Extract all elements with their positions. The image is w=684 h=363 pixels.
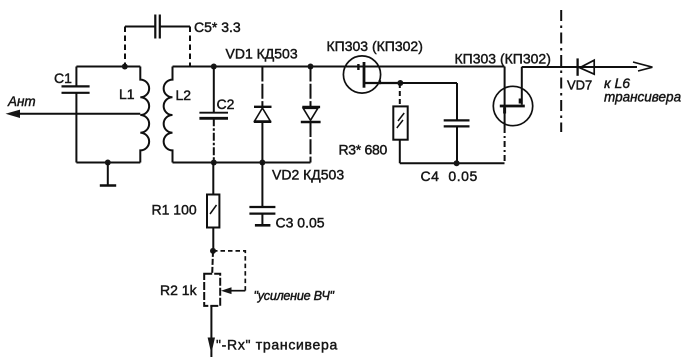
junction VD2 top — [308, 64, 314, 70]
junction ground tap — [105, 160, 111, 166]
resistor R1 — [152, 163, 220, 251]
junction C4 bottom — [454, 160, 460, 166]
ground C3 — [255, 224, 271, 227]
capacitor C2 — [199, 67, 234, 163]
wire antenna line — [17, 113, 140, 115]
wire output — [522, 66, 637, 68]
svg-text:C3 0.05: C3 0.05 — [276, 215, 325, 231]
ground — [100, 163, 116, 186]
svg-text:R1 100: R1 100 — [152, 202, 197, 218]
svg-text:VD2 КД503: VD2 КД503 — [272, 167, 344, 183]
wire source to C4 — [400, 82, 457, 84]
svg-text:VD7: VD7 — [567, 78, 592, 93]
wire dashed wiper link — [213, 251, 245, 291]
arrow to L6 — [633, 62, 653, 71]
junction C5 left tap — [122, 64, 128, 70]
svg-text:L1: L1 — [119, 86, 135, 102]
junction Q1 source — [397, 80, 403, 86]
inductor L1 — [119, 67, 149, 163]
wire primary bottom — [76, 162, 140, 164]
capacitor C3 — [249, 163, 324, 231]
wire secondary top rail — [173, 66, 505, 68]
inductor L2 — [164, 67, 192, 163]
svg-text:C5* 3.3: C5* 3.3 — [194, 19, 241, 35]
boundary dash line — [560, 10, 562, 132]
capacitor C5 — [125, 15, 241, 39]
svg-text:Ант: Ант — [7, 94, 36, 109]
diode VD1 — [226, 46, 298, 163]
svg-text:C4 0.05: C4 0.05 — [421, 168, 478, 184]
junction C2 bottom / R1 top — [211, 160, 217, 166]
svg-text:"-Rx" трансивера: "-Rx" трансивера — [216, 337, 338, 353]
svg-text:КП303 (КП302): КП303 (КП302) — [327, 38, 423, 54]
transistor Q2 КП303 — [455, 51, 551, 164]
junction C2 top — [211, 64, 217, 70]
capacitor C4 — [421, 83, 478, 184]
junction VD1 bottom / C3 top — [259, 160, 265, 166]
resistor R2 potentiometer — [160, 251, 232, 306]
wire R2 bottom lead — [210, 306, 212, 357]
svg-text:VD1 КД503: VD1 КД503 — [226, 46, 298, 62]
junction R1 bottom / R2 top — [210, 248, 216, 254]
svg-text:трансивера: трансивера — [604, 90, 682, 105]
wire C5 right riser — [189, 27, 191, 67]
svg-text:КП303 (КП302): КП303 (КП302) — [455, 51, 551, 67]
svg-text:R2 1k: R2 1k — [160, 282, 198, 298]
svg-text:R3* 680: R3* 680 — [339, 142, 388, 158]
wire secondary bottom rail — [173, 162, 311, 164]
resistor R3 — [339, 83, 408, 163]
arrow to Rx — [208, 338, 215, 354]
transistor Q1 КП303 — [327, 38, 423, 93]
capacitor C1 — [54, 67, 90, 163]
svg-text:C2: C2 — [217, 96, 235, 112]
antenna arrow — [6, 110, 21, 118]
wire primary top — [76, 66, 140, 68]
wire C5 left riser — [124, 27, 126, 67]
svg-text:L2: L2 — [176, 87, 192, 103]
svg-text:C1: C1 — [54, 70, 72, 86]
wire bottom rail 2 — [400, 162, 505, 164]
svg-text:"усиление ВЧ": "усиление ВЧ" — [254, 289, 335, 303]
diode VD7 — [567, 58, 594, 92]
diode VD2 — [272, 67, 344, 183]
